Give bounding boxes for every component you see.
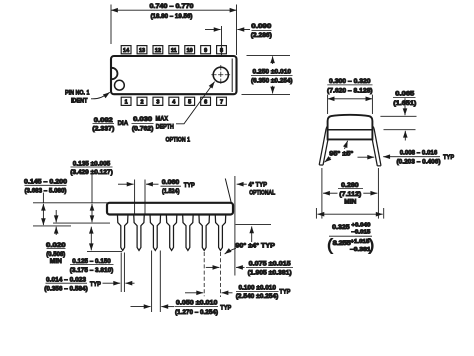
svg-text:MIN: MIN bbox=[50, 258, 62, 265]
end view: body seam line bbox=[328, 129, 373, 131]
svg-text:(0.203 – 0.406): (0.203 – 0.406) bbox=[397, 159, 441, 166]
svg-text:TYP: TYP bbox=[90, 281, 101, 288]
svg-text:(1.905 ±0.381): (1.905 ±0.381) bbox=[248, 270, 292, 277]
svg-text:0.075 ±0.015: 0.075 ±0.015 bbox=[249, 261, 291, 268]
pin 1 ident dot bbox=[115, 80, 125, 90]
svg-text:TYP: TYP bbox=[184, 182, 195, 189]
top-view lead box pin 13 bbox=[137, 46, 147, 54]
svg-text:0.280: 0.280 bbox=[341, 182, 359, 189]
svg-text:90° ±4° TYP: 90° ±4° TYP bbox=[235, 241, 275, 249]
dim 0.135 +-0.005 arrows bbox=[91, 175, 93, 203]
side view body bbox=[107, 203, 233, 215]
svg-text:13: 13 bbox=[139, 48, 145, 54]
svg-text:OPTION 1: OPTION 1 bbox=[166, 136, 191, 143]
svg-text:0.030: 0.030 bbox=[133, 116, 152, 123]
svg-text:0.090: 0.090 bbox=[251, 23, 271, 30]
side view lead 3 (shoulder + leg) bbox=[150, 214, 161, 251]
svg-text:MIN: MIN bbox=[344, 198, 356, 205]
side view lead 2 (shoulder + leg) bbox=[134, 214, 145, 251]
top-view lead box pin 11 bbox=[169, 46, 179, 54]
svg-text:(3.683 – 5.080): (3.683 – 5.080) bbox=[25, 187, 67, 194]
dim 0.145-0.200 arrows bbox=[42, 193, 44, 203]
svg-text:TYP: TYP bbox=[443, 154, 454, 161]
svg-text:(3.175 – 3.810): (3.175 – 3.810) bbox=[70, 267, 114, 274]
svg-text:11: 11 bbox=[171, 48, 177, 54]
svg-text:0.300 – 0.320: 0.300 – 0.320 bbox=[329, 78, 371, 85]
svg-text:(0.508): (0.508) bbox=[46, 251, 65, 258]
svg-text:1: 1 bbox=[125, 100, 128, 106]
svg-text:0.020: 0.020 bbox=[46, 242, 66, 249]
top-view lead box pin 1 bbox=[121, 97, 131, 105]
svg-text:(1.270 – 0.254): (1.270 – 0.254) bbox=[175, 309, 218, 316]
leader to pin 1 ident bbox=[91, 92, 110, 99]
svg-text:4° TYP: 4° TYP bbox=[249, 180, 268, 188]
top-view lead box pin 14 bbox=[121, 46, 131, 54]
leg 7 centerline (dashed) bbox=[220, 252, 222, 297]
leader from DEPTH note to option-1 dimple bbox=[176, 82, 215, 124]
extension line: body top, to the left bbox=[33, 202, 109, 204]
top-view lead box pin 6 bbox=[201, 97, 211, 105]
svg-text:0.135 ±0.005: 0.135 ±0.005 bbox=[73, 160, 111, 167]
top-view lead box pin 7 bbox=[217, 97, 227, 105]
svg-text:PIN NO. 1: PIN NO. 1 bbox=[65, 90, 90, 97]
side view lead 1 (shoulder + leg) bbox=[117, 214, 128, 251]
top-view lead box pin 10 bbox=[185, 46, 195, 54]
svg-text:0.145 – 0.200: 0.145 – 0.200 bbox=[24, 179, 67, 186]
side view lead 4 (shoulder + leg) bbox=[166, 214, 177, 251]
top-view lead box pin 4 bbox=[169, 97, 179, 105]
svg-text:–0.381: –0.381 bbox=[350, 247, 371, 253]
end view: body bbox=[328, 115, 373, 140]
svg-text:7: 7 bbox=[220, 100, 223, 106]
dim 0.020 MIN arrows (down to shoulder bottom, up to seating plane) bbox=[55, 210, 57, 222]
svg-text:0.050 ±0.010: 0.050 ±0.010 bbox=[176, 299, 218, 306]
extension line: seating plane right bbox=[236, 224, 272, 226]
end view: left lead bbox=[319, 127, 330, 166]
end view: right lead bbox=[370, 127, 381, 166]
dim 0.325: short extension lines bbox=[315, 208, 317, 219]
svg-text:(18.80 – 19.56): (18.80 – 19.56) bbox=[151, 13, 193, 20]
dim 0.075 +-0.015 arrows bbox=[206, 266, 220, 268]
svg-text:(2.540 ±0.254): (2.540 ±0.254) bbox=[236, 293, 279, 300]
top-view lead box pin 5 bbox=[185, 97, 195, 105]
extension line pin-8 centerline bbox=[221, 26, 223, 56]
leg tip extension line bbox=[87, 250, 122, 252]
svg-text:0.065: 0.065 bbox=[395, 91, 414, 98]
svg-text:(2.286): (2.286) bbox=[251, 32, 272, 39]
svg-text:(3.429 ±0.127): (3.429 ±0.127) bbox=[70, 169, 113, 176]
top-view lead box pin 12 bbox=[153, 46, 163, 54]
svg-text:(0.762): (0.762) bbox=[132, 126, 154, 133]
dimension 0.740-0.770 overall length bbox=[111, 9, 237, 11]
svg-text:0.014 – 0.023: 0.014 – 0.023 bbox=[46, 276, 86, 283]
svg-text:(2.337): (2.337) bbox=[92, 126, 114, 133]
dim 0.280 MIN arrows bbox=[323, 192, 338, 194]
body end extension line (right, vertical) bbox=[234, 176, 236, 276]
top-view lead box pin 3 bbox=[153, 97, 163, 105]
extension line right (body end), runs down to body bbox=[236, 5, 238, 56]
svg-text:12: 12 bbox=[155, 48, 161, 54]
svg-text:2: 2 bbox=[140, 100, 143, 106]
svg-text:(0.356 – 0.584): (0.356 – 0.584) bbox=[44, 285, 88, 292]
dimension 0.250 body width: extension lines bbox=[247, 54, 291, 56]
svg-text:MAX: MAX bbox=[156, 115, 169, 122]
body end inner chamfer line (right) bbox=[231, 59, 233, 93]
dim 0.050 +-0.010: extension lines below leg 3 bbox=[151, 251, 153, 313]
svg-text:8.255: 8.255 bbox=[333, 240, 352, 247]
top-view lead box pin 2 bbox=[137, 97, 147, 105]
svg-text:OPTIONAL: OPTIONAL bbox=[249, 189, 275, 196]
top-view lead box pin 9 bbox=[201, 46, 211, 54]
svg-text:+0.040: +0.040 bbox=[351, 223, 370, 229]
svg-text:6: 6 bbox=[204, 100, 207, 106]
dim 0.060 TYP shoulder width: extension lines bbox=[134, 180, 136, 215]
svg-text:9: 9 bbox=[204, 48, 207, 54]
svg-text:–0.015: –0.015 bbox=[351, 229, 370, 235]
dim 0.008-0.016 TYP lead thickness arrows bbox=[358, 156, 375, 158]
svg-text:TYP: TYP bbox=[279, 288, 290, 295]
side view lead 6 (shoulder + leg) bbox=[199, 214, 210, 251]
svg-text:5: 5 bbox=[188, 100, 191, 106]
side view lead 5 (shoulder + leg) bbox=[183, 214, 194, 251]
svg-text:DIA: DIA bbox=[118, 120, 129, 127]
svg-text:10: 10 bbox=[187, 48, 193, 54]
svg-text:(7.112): (7.112) bbox=[339, 191, 361, 198]
svg-text:IDENT: IDENT bbox=[71, 98, 88, 105]
pin 1 end notch (semicircle on left edge) bbox=[112, 68, 118, 79]
dim 0.065 lid: extension lines bbox=[380, 115, 416, 117]
option 1 dimple circle with crosshair bbox=[213, 67, 228, 82]
svg-text:(6.350 ±0.254): (6.350 ±0.254) bbox=[251, 78, 293, 85]
leg 6 centerline (dashed) bbox=[203, 252, 205, 296]
extension line: seating plane left bbox=[33, 225, 71, 227]
svg-text:0.060: 0.060 bbox=[162, 179, 180, 186]
svg-text:TYP: TYP bbox=[220, 305, 231, 312]
svg-text:3: 3 bbox=[156, 100, 159, 106]
svg-text:0.008 – 0.016: 0.008 – 0.016 bbox=[400, 149, 438, 156]
svg-text:(7.620 – 8.128): (7.620 – 8.128) bbox=[327, 87, 373, 94]
svg-text:0.125 – 0.150: 0.125 – 0.150 bbox=[72, 258, 111, 265]
dim 0.014-0.023 TYP leg width: extension lines bbox=[120, 253, 122, 293]
dim 0.100 +-0.010 TYP lead pitch arrows bbox=[185, 292, 203, 294]
svg-text:0.740 – 0.770: 0.740 – 0.770 bbox=[150, 3, 194, 10]
4 deg TYP OPTIONAL note with slant line bbox=[225, 179, 231, 203]
top-view lead box pin 8 bbox=[217, 46, 227, 54]
dim 0.300-0.320: extension lines bbox=[327, 95, 329, 114]
svg-text:+1.015: +1.015 bbox=[350, 239, 369, 245]
dimension 0.090 lead to body end bbox=[205, 29, 221, 31]
side view lead 7 (shoulder + leg) bbox=[215, 214, 226, 251]
svg-text:0.325: 0.325 bbox=[332, 224, 350, 231]
extension line: shoulder bottom (left) bbox=[53, 222, 110, 224]
svg-text:95° ±5°: 95° ±5° bbox=[329, 150, 353, 158]
extension line left (body end) bbox=[110, 5, 112, 45]
DIP-14 top view body bbox=[111, 56, 237, 94]
dim 0.125-0.150 lead length arrows bbox=[90, 227, 92, 239]
svg-text:0.250 ±0.010: 0.250 ±0.010 bbox=[253, 68, 292, 75]
svg-text:14: 14 bbox=[123, 48, 130, 54]
svg-text:(1.524): (1.524) bbox=[162, 188, 180, 195]
svg-text:0.092: 0.092 bbox=[94, 117, 113, 124]
svg-text:0.100 ±0.010: 0.100 ±0.010 bbox=[238, 285, 276, 292]
extension lines below leads bbox=[321, 168, 323, 219]
svg-text:DEPTH: DEPTH bbox=[156, 124, 174, 131]
